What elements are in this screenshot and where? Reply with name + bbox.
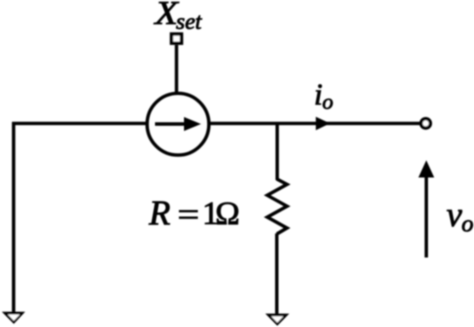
- wire (square to current source): [175, 45, 178, 93]
- svg-text:set: set: [176, 9, 202, 34]
- voltage arrow vo: [418, 160, 434, 257]
- wire (resistor to ground): [275, 234, 278, 315]
- current source U1: [147, 93, 209, 155]
- current source arrow: [155, 117, 201, 131]
- node (junction) wire to resistor: [276, 123, 279, 180]
- label Xset: [153, 0, 202, 34]
- svg-text:v: v: [447, 195, 463, 234]
- resistor R1 zigzag: [267, 179, 287, 234]
- svg-text:Ω: Ω: [215, 196, 240, 232]
- ground (left): [2, 312, 25, 324]
- svg-text:R: R: [148, 194, 170, 233]
- wire (left vertical): [12, 122, 15, 313]
- label vo: [447, 195, 474, 238]
- terminal Xset (square): [172, 34, 182, 43]
- wire (left horizontal): [12, 122, 149, 125]
- current arrow io: [316, 117, 330, 130]
- label io: [314, 77, 333, 115]
- label R = 1 ohm: [148, 194, 240, 233]
- terminal (output, open circle): [421, 119, 430, 128]
- ground (right): [265, 314, 289, 326]
- svg-text:o: o: [462, 212, 474, 238]
- wire (circle to output terminal): [208, 122, 421, 125]
- svg-text:=: =: [178, 196, 200, 233]
- svg-text:o: o: [322, 89, 333, 114]
